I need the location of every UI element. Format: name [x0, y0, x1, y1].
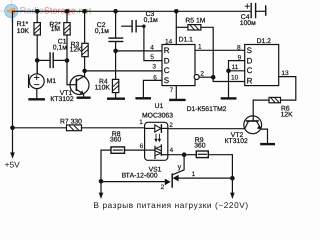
svg-text:D: D: [164, 56, 170, 65]
transistor VT1 KT3102: [50, 71, 89, 103]
wire VT2 collector to U1 pin2: [168, 128, 245, 130]
svg-text:0,1м: 0,1м: [144, 17, 158, 24]
watermark logo: [0, 0, 22, 22]
wire VT1 collector to D1.1 pin3: [85, 70, 162, 72]
svg-text:3: 3: [152, 64, 156, 71]
optocoupler U1 MOC3063: [139, 103, 184, 160]
svg-text:R: R: [164, 46, 170, 55]
LED inside: [145, 127, 155, 129]
svg-text:S: S: [247, 46, 252, 55]
ground M1: [30, 98, 44, 100]
svg-text:R5 1M: R5 1M: [185, 18, 205, 25]
svg-text:+5V: +5V: [5, 160, 21, 170]
svg-text:8: 8: [237, 45, 241, 52]
capacitor C1: [37, 39, 67, 68]
svg-text:2: 2: [161, 184, 165, 191]
svg-text:5: 5: [150, 54, 154, 61]
svg-text:М1: М1: [47, 78, 57, 85]
node R1-C1: [35, 58, 40, 63]
svg-text:ВТА-12-600: ВТА-12-600: [122, 173, 158, 180]
resistor R8: [101, 131, 145, 181]
svg-text:D: D: [247, 56, 253, 65]
D1.1 pin2 inverted output: [194, 75, 199, 80]
resistor R2: [49, 11, 70, 84]
phototriac inside: [145, 149, 155, 151]
svg-text:10K: 10K: [17, 28, 30, 35]
node C2-R input: [113, 49, 118, 54]
node load right: [230, 176, 235, 181]
node U1 pin4 / gate: [182, 152, 187, 157]
wire D1.2 pin13 to R6: [279, 77, 296, 101]
pin7 wire to ground: [175, 86, 177, 100]
wire C2 node to D1.1 pin4: [116, 50, 162, 52]
load arrow left: [99, 181, 104, 199]
resistor R4: [95, 78, 119, 98]
load arrow right: [230, 178, 235, 199]
svg-text:6: 6: [153, 74, 157, 81]
svg-text:у: у: [178, 164, 182, 171]
svg-text:12K: 12K: [70, 47, 83, 54]
node rail-R2: [65, 9, 70, 14]
node R2-C1: [65, 58, 70, 63]
svg-text:0,1м: 0,1м: [53, 44, 67, 51]
svg-text:В разрыв питания нагрузки (~22: В разрыв питания нагрузки (~220V): [94, 201, 249, 210]
svg-text:11: 11: [232, 64, 239, 71]
capacitor C2: [95, 11, 123, 79]
svg-text:12K: 12K: [281, 111, 294, 118]
IC D1.2 K561TM2 flip-flop: [231, 38, 279, 85]
resistor R5: [176, 18, 213, 78]
ground D1.1 pin6: [137, 97, 150, 99]
svg-text:S: S: [164, 76, 169, 85]
microphone M1: [29, 60, 57, 98]
resistor R1: [17, 11, 41, 74]
svg-text:R: R: [247, 77, 253, 86]
resistor R7: [13, 118, 145, 130]
ground VT2 emitter: [261, 143, 273, 145]
node rail-pin14: [174, 9, 179, 14]
svg-text:КТ3102: КТ3102: [225, 138, 248, 145]
ground R4: [108, 97, 124, 99]
svg-text:МОС3063: МОС3063: [142, 112, 173, 119]
node load left: [99, 179, 104, 184]
svg-text:D1.1: D1.1: [179, 36, 194, 43]
svg-text:D1-К561ТМ2: D1-К561ТМ2: [187, 106, 227, 113]
watermark text RadioStorage.net: [20, 6, 92, 16]
svg-text:360: 360: [110, 137, 122, 144]
svg-text:13: 13: [281, 70, 289, 77]
node rail-R1: [35, 9, 40, 14]
wire node to D1.2 pin10: [213, 77, 245, 81]
+5V arrow: [5, 126, 21, 170]
node rail-C2: [113, 9, 118, 14]
svg-text:1: 1: [192, 171, 196, 178]
svg-text:14: 14: [165, 38, 173, 45]
svg-text:110K: 110K: [95, 85, 111, 92]
wire top +5V rail: [13, 11, 252, 128]
ground D1.1 pin7: [170, 99, 184, 101]
resistor R9: [184, 137, 232, 178]
svg-text:4: 4: [150, 45, 154, 52]
capacitor C4: [240, 4, 266, 27]
ground VT1 emitter: [78, 96, 90, 98]
svg-text:RadioStorage.net: RadioStorage.net: [20, 6, 92, 16]
wire D1.2 pin9/pin11 to ground: [229, 61, 245, 98]
wire D1.1 pin6 to ground: [143, 80, 162, 97]
resistor R6: [253, 97, 293, 118]
svg-text:D1.2: D1.2: [257, 38, 272, 45]
node pin11: [226, 69, 231, 74]
node pin2-R5: [211, 75, 216, 80]
node rail-R3: [82, 9, 87, 14]
transistor VT2 KT3102: [225, 116, 268, 145]
triac VS1 BTA-12-600: [101, 155, 232, 191]
ground D1.2 DC: [222, 97, 235, 99]
svg-text:0,1м: 0,1м: [95, 28, 109, 35]
pin14 wire: [175, 11, 177, 44]
svg-text:1: 1: [198, 44, 202, 51]
svg-text:C: C: [247, 66, 253, 75]
svg-text:2: 2: [169, 122, 173, 129]
wire D1.1 pin1 to D1.2 pin8: [195, 49, 245, 51]
svg-text:7: 7: [170, 87, 174, 94]
svg-text:C: C: [164, 66, 170, 75]
capacitor C3: [122, 11, 162, 60]
svg-text:U1: U1: [155, 103, 164, 110]
light arrows: [154, 134, 161, 142]
svg-text:6: 6: [140, 143, 144, 150]
IC D1.1 K561TM2 flip-flop: [150, 36, 195, 94]
svg-text:4: 4: [170, 147, 174, 154]
svg-text:360: 360: [194, 143, 206, 150]
svg-text:2: 2: [200, 71, 204, 78]
svg-text:1M: 1M: [51, 26, 61, 33]
svg-text:100м: 100м: [240, 20, 256, 27]
svg-text:10: 10: [231, 74, 239, 81]
svg-text:1: 1: [139, 119, 143, 126]
svg-text:КТ3102: КТ3102: [50, 96, 73, 103]
node R3-VT1 collector: [82, 69, 87, 74]
svg-text:R7 330: R7 330: [60, 118, 82, 125]
resistor R3: [70, 11, 89, 71]
